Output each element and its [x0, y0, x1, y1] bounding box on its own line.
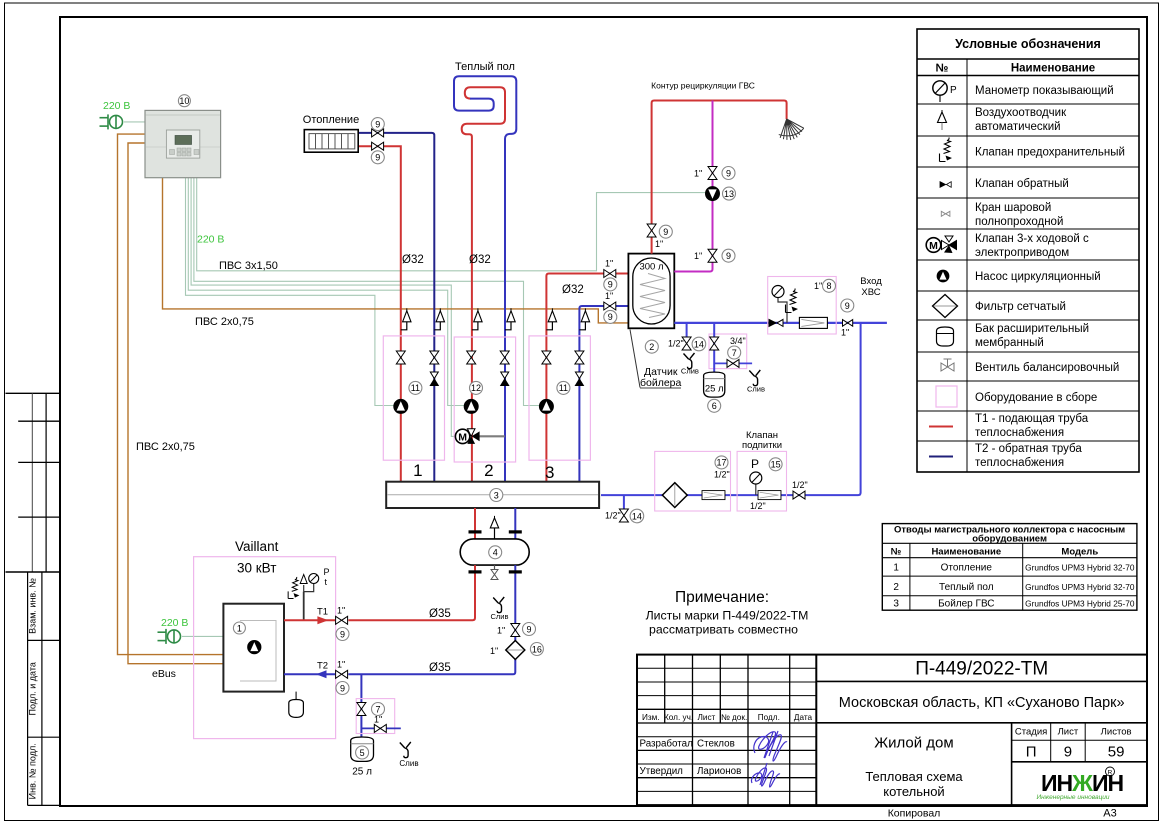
svg-text:7: 7	[375, 704, 380, 714]
check valve group3	[575, 372, 583, 386]
svg-text:11: 11	[411, 383, 420, 393]
svg-text:Наименование: Наименование	[1011, 63, 1095, 75]
svg-text:Московская область, КП «Сухано: Московская область, КП «Суханово Парк»	[839, 695, 1125, 711]
logo ИНЖИН	[1036, 767, 1123, 801]
svg-text:300 л: 300 л	[639, 262, 663, 273]
svg-text:Ø35: Ø35	[429, 662, 451, 674]
svg-text:1: 1	[893, 563, 899, 574]
svg-text:Листы марки П-449/2022-ТМ: Листы марки П-449/2022-ТМ	[646, 609, 809, 623]
label Вход ХВС	[860, 276, 882, 298]
label circle 9 entry	[841, 299, 854, 312]
svg-text:Взам. инв. №: Взам. инв. №	[28, 578, 38, 634]
svg-text:Р: Р	[751, 457, 759, 471]
svg-text:мембранный: мембранный	[975, 337, 1044, 349]
svg-text:ПВС 3х1,50: ПВС 3х1,50	[219, 260, 278, 272]
boiler safety group stem	[303, 592, 305, 621]
svg-text:5: 5	[360, 748, 365, 758]
label circle 5 tank	[356, 746, 369, 759]
svg-text:Изм.: Изм.	[642, 713, 660, 722]
svg-text:теплоснабжения: теплоснабжения	[975, 457, 1064, 469]
legend text: Т1 - подающая труба теплоснабжения	[975, 413, 1089, 439]
svg-text:2: 2	[893, 582, 899, 593]
label circle 9 radiator return	[371, 118, 384, 131]
svg-text:Копировал: Копировал	[888, 808, 941, 820]
boiler expansion tank stem	[295, 692, 297, 700]
check valve group1	[430, 372, 438, 386]
signature 1 (blue)	[754, 731, 787, 761]
air vent riser 6	[579, 308, 589, 330]
title block grid	[637, 655, 1147, 806]
label circle 9 T1	[336, 628, 349, 641]
pump group1	[394, 399, 408, 413]
label Датчик бойлера	[640, 366, 682, 389]
pump inside boiler	[248, 640, 261, 653]
manometer group 8	[772, 286, 787, 323]
svg-text:1": 1"	[337, 606, 345, 616]
strainer 17 diamond	[662, 483, 687, 508]
signature 2 (blue)	[751, 763, 780, 787]
svg-text:Тепловая схема: Тепловая схема	[865, 769, 963, 784]
svg-text:автоматический: автоматический	[975, 121, 1061, 133]
pump group 1 pink box	[383, 336, 444, 460]
svg-text:9: 9	[608, 280, 613, 290]
separator drain stem	[494, 565, 496, 570]
svg-text:17: 17	[716, 458, 726, 468]
valve drain horizontal	[374, 724, 386, 732]
valve radiator supply	[372, 142, 384, 150]
flow arrow T2	[316, 670, 327, 678]
svg-text:теплоснабжения: теплоснабжения	[975, 427, 1064, 439]
tank6 pink box	[709, 334, 747, 369]
svg-text:Контур рециркуляции ГВС: Контур рециркуляции ГВС	[651, 81, 755, 91]
svg-text:оборудованием: оборудованием	[972, 534, 1047, 545]
wire teal to pump 3	[194, 178, 540, 406]
legend assembled equipment symbol (pink box)	[936, 386, 957, 407]
svg-text:М: М	[929, 240, 938, 252]
air vent riser 5	[546, 308, 556, 330]
pipe collector to separator blue	[514, 508, 516, 539]
svg-text:ПВС 2х0,75: ПВС 2х0,75	[136, 441, 195, 453]
pump group3	[539, 399, 553, 413]
label circle 14 drain	[692, 337, 706, 351]
svg-text:Стадия: Стадия	[1015, 727, 1047, 738]
label circle 15	[769, 458, 782, 471]
svg-text:Ларионов: Ларионов	[697, 766, 741, 777]
svg-text:№: №	[936, 63, 949, 75]
valve recirc top	[708, 167, 717, 180]
power plug 220V bottom	[158, 629, 181, 644]
legend table grid	[917, 29, 1139, 472]
svg-text:Вентиль балансировочный: Вентиль балансировочный	[975, 362, 1119, 374]
pump table header	[894, 525, 1125, 545]
svg-text:1/2": 1/2"	[605, 511, 621, 521]
label circle 11 group3	[557, 381, 570, 394]
svg-text:Наименование: Наименование	[931, 547, 1001, 558]
legend 3-way valve symbol	[926, 236, 956, 253]
svg-text:9: 9	[726, 168, 731, 178]
svg-text:котельной: котельной	[883, 784, 944, 799]
strainer rectangle group 8	[799, 317, 827, 328]
legend T1 line sample	[929, 426, 953, 428]
pump table col headers	[891, 547, 1099, 558]
title Тепловая схема котельной	[865, 769, 963, 799]
safety valve on boiler	[288, 577, 299, 599]
svg-text:Утвердил: Утвердил	[640, 766, 684, 777]
svg-text:9: 9	[845, 301, 850, 311]
svg-text:Дата: Дата	[794, 713, 813, 722]
svg-text:15: 15	[771, 460, 781, 470]
wire teal to recirculation pump 13	[197, 178, 706, 271]
make-up box 15 pink	[737, 451, 786, 511]
svg-text:Модель: Модель	[1061, 547, 1098, 558]
svg-text:1": 1"	[814, 281, 822, 291]
valve 9 on T2 before separator	[511, 624, 520, 637]
svg-text:1": 1"	[497, 626, 505, 636]
svg-text:Слив: Слив	[399, 759, 418, 768]
svg-text:220 В: 220 В	[197, 234, 224, 246]
pipe coil return (blue)	[582, 305, 648, 307]
svg-text:Grundfos UPM3 Hybrid 32-70: Grundfos UPM3 Hybrid 32-70	[1025, 563, 1135, 573]
valve DHW outlet	[647, 224, 656, 237]
svg-text:М: М	[458, 431, 467, 443]
check valve group2	[501, 372, 509, 386]
label circle 9 T2	[336, 682, 349, 695]
svg-text:Слив: Слив	[681, 367, 699, 376]
svg-text:Клапан 3-х ходовой с: Клапан 3-х ходовой с	[975, 233, 1089, 245]
label circle 4 separator	[489, 546, 502, 559]
svg-text:подпитки: подпитки	[742, 440, 782, 451]
label circle 8	[823, 279, 836, 292]
air vent on boiler safety group	[300, 575, 307, 592]
legend text: Кран шаровой полнопроходной	[975, 202, 1063, 228]
svg-text:8: 8	[826, 281, 831, 291]
note Примечание	[646, 589, 809, 637]
legend T2 line sample	[929, 456, 953, 458]
svg-text:1": 1"	[655, 239, 663, 249]
label circle 17	[715, 456, 728, 469]
title small headers Стадия Лист Листов	[1015, 727, 1132, 738]
legend safety valve symbol	[940, 138, 953, 162]
svg-text:Т1 - подающая труба: Т1 - подающая труба	[975, 413, 1089, 425]
flange red bottom	[469, 570, 482, 573]
svg-text:Манометр показывающий: Манометр показывающий	[975, 85, 1114, 97]
svg-text:14: 14	[632, 511, 642, 521]
svg-text:полнопроходной: полнопроходной	[975, 216, 1063, 228]
T2 drain branch pipe	[360, 674, 362, 737]
label circle 9 DHW outlet	[659, 225, 672, 238]
wire teal plug to Vaillant	[182, 635, 223, 637]
legend pump symbol	[937, 270, 949, 282]
svg-text:Ø35: Ø35	[429, 608, 451, 620]
pipe make-up down	[601, 323, 861, 495]
svg-text:1/2": 1/2"	[668, 339, 684, 349]
wire brown boiler sensor	[163, 178, 629, 323]
svg-text:Т2 - обратная труба: Т2 - обратная труба	[975, 443, 1082, 455]
collector drain branch	[623, 495, 625, 509]
recirculation pump 13	[706, 187, 720, 201]
label circle 10	[178, 95, 190, 107]
label circle 13	[723, 187, 736, 200]
svg-text:12: 12	[471, 383, 481, 393]
svg-text:Теплый пол: Теплый пол	[455, 61, 515, 73]
pipe DHW hot outlet (red up)	[652, 101, 787, 254]
tank6 drain stub	[714, 362, 752, 364]
svg-text:9: 9	[608, 312, 613, 322]
svg-text:Р: Р	[950, 85, 957, 96]
label circle 3 collector	[490, 489, 503, 502]
boiler sensor leader line	[630, 330, 640, 388]
legend manometer symbol	[933, 81, 957, 102]
valve coil return	[604, 302, 616, 310]
svg-text:Фильтр сетчатый: Фильтр сетчатый	[975, 301, 1066, 313]
svg-text:59: 59	[1108, 744, 1125, 761]
flange red top	[469, 530, 482, 533]
svg-text:Бойлер ГВС: Бойлер ГВС	[938, 599, 994, 610]
svg-text:П: П	[1026, 744, 1037, 761]
shower symbol	[774, 114, 806, 144]
svg-text:Оборудование в сборе: Оборудование в сборе	[975, 392, 1097, 404]
svg-text:Воздухоотводчик: Воздухоотводчик	[975, 107, 1067, 119]
label circle 2 boiler300	[645, 340, 658, 353]
wire teal to pump 2	[188, 178, 464, 406]
svg-text:2: 2	[484, 461, 493, 480]
label circle 9 recirc bottom	[722, 249, 735, 262]
svg-text:Подл. и дата: Подл. и дата	[28, 662, 38, 715]
svg-text:электроприводом: электроприводом	[975, 247, 1069, 259]
pump table grid	[882, 524, 1137, 611]
svg-text:9: 9	[726, 251, 731, 261]
legend text: Клапан 3-х ходовой с электроприводом	[975, 233, 1089, 259]
check valve cold water	[769, 319, 783, 326]
legend text: Воздухоотводчик автоматический	[975, 107, 1067, 133]
svg-text:Инженерные инновации: Инженерные инновации	[1036, 794, 1109, 801]
svg-text:Стеклов: Стеклов	[697, 739, 735, 750]
drain symbol below separator	[493, 597, 504, 613]
pipe T1 from boiler	[284, 619, 335, 621]
svg-text:Кол. уч.: Кол. уч.	[664, 713, 693, 722]
label circle 16 strainer	[530, 643, 543, 656]
air vent riser 1	[401, 308, 411, 330]
svg-text:7: 7	[732, 348, 737, 358]
svg-text:13: 13	[724, 189, 734, 199]
title row headers Изм Кол.уч Лист №док Подл Дата	[642, 713, 812, 722]
air vent separator	[490, 516, 498, 539]
svg-text:P: P	[324, 567, 330, 577]
valve cold water entry	[843, 320, 853, 327]
3-way valve with actuator M group2	[455, 429, 504, 444]
svg-text:Вход: Вход	[860, 276, 882, 287]
svg-text:№ док.: № док.	[721, 713, 747, 722]
svg-text:П-449/2022-ТМ: П-449/2022-ТМ	[915, 659, 1048, 680]
svg-text:T2: T2	[317, 661, 328, 672]
svg-text:Vaillant: Vaillant	[235, 539, 279, 554]
label circle 9 coil return	[604, 310, 617, 323]
label circle 14 collector drain	[630, 509, 644, 523]
wire brown eBus A	[118, 134, 224, 655]
svg-text:14: 14	[694, 339, 704, 349]
svg-text:9: 9	[1064, 744, 1072, 761]
valve group3 supply	[542, 351, 551, 364]
pipe T2 to boiler	[284, 673, 335, 675]
label circle 9 radiator supply	[371, 151, 384, 164]
valve drain 14	[682, 337, 691, 350]
legend strainer symbol	[933, 295, 958, 318]
pump group2	[464, 399, 478, 413]
pipe separator down blue	[348, 565, 515, 674]
air vent riser 2	[434, 308, 444, 330]
title values П 9 59	[1026, 744, 1125, 761]
drain symbol near tank5	[400, 742, 411, 758]
svg-text:ПВС 2х0,75: ПВС 2х0,75	[195, 316, 254, 328]
valve group2 supply	[467, 351, 476, 364]
pipe recirculation (magenta)	[674, 101, 712, 272]
svg-text:3/4": 3/4"	[730, 336, 746, 346]
drain symbol right of tank6	[749, 370, 760, 386]
pipe T1 radiator supply (red riser group 1)	[358, 146, 401, 481]
pipe cold water main (blue)	[674, 322, 887, 324]
air vent riser 3	[472, 308, 482, 330]
pump table row 1	[893, 563, 1135, 574]
tank branch drain stub	[361, 727, 400, 729]
manometer on boiler safety group	[304, 574, 319, 592]
svg-text:Примечание:: Примечание:	[675, 589, 769, 606]
pipe tank6 branch	[713, 323, 715, 372]
flange blue bottom	[509, 570, 522, 573]
pipe group 3 red riser	[546, 274, 603, 482]
svg-text:4: 4	[493, 548, 498, 558]
T2 drain pink box	[356, 699, 395, 734]
svg-text:Лист: Лист	[1058, 727, 1079, 738]
svg-text:Кран шаровой: Кран шаровой	[975, 202, 1051, 214]
pipe collector to separator red	[474, 508, 476, 539]
svg-text:9: 9	[340, 629, 345, 639]
svg-text:9: 9	[663, 227, 668, 237]
valve T1	[336, 616, 348, 624]
svg-text:бойлера: бойлера	[640, 377, 682, 389]
flange blue top	[509, 530, 522, 533]
label Клапан подпитки	[742, 430, 782, 451]
power plug 220V top	[100, 114, 123, 129]
svg-text:Подл.: Подл.	[758, 713, 780, 722]
svg-text:9: 9	[526, 624, 531, 634]
controller unit 10	[145, 110, 221, 177]
svg-text:1: 1	[413, 461, 422, 480]
valve group1 return	[430, 351, 439, 364]
svg-text:10: 10	[179, 96, 189, 106]
wire teal to 3-way valve M	[191, 178, 455, 437]
legend ball valve symbol	[941, 211, 950, 216]
svg-text:eBus: eBus	[152, 668, 176, 680]
svg-text:ХВС: ХВС	[861, 287, 880, 298]
svg-text:рассматривать совместно: рассматривать совместно	[649, 623, 798, 637]
svg-text:1": 1"	[694, 251, 702, 261]
boiler small expansion tank	[289, 700, 304, 718]
svg-text:11: 11	[559, 383, 568, 393]
svg-text:3: 3	[545, 463, 554, 482]
reducer after filter17	[702, 491, 725, 500]
valve group1 supply	[396, 351, 405, 364]
valve tank6 drain	[727, 359, 739, 367]
svg-text:1: 1	[237, 623, 242, 633]
collector 3	[386, 482, 599, 508]
label circle 9 recirc top	[722, 167, 735, 180]
label P t	[324, 567, 330, 587]
svg-text:220 В: 220 В	[161, 617, 188, 629]
label circle 7 tank6	[728, 346, 741, 359]
legend expansion tank symbol	[937, 327, 954, 346]
svg-text:1": 1"	[337, 660, 345, 670]
label circle 9 coil supply	[604, 278, 617, 291]
valve collector drain	[619, 509, 628, 522]
svg-text:3: 3	[494, 490, 499, 500]
svg-text:220 В: 220 В	[103, 100, 130, 112]
floor heating coil blue part	[454, 76, 516, 482]
wall boiler 1 body	[223, 604, 284, 692]
svg-text:9: 9	[375, 119, 380, 129]
pump group 2 pink box	[454, 337, 515, 462]
flow arrow T1	[317, 616, 328, 624]
svg-text:1/2": 1/2"	[714, 470, 730, 480]
svg-text:Grundfos UPM3 Hybrid 25-70: Grundfos UPM3 Hybrid 25-70	[1025, 599, 1135, 609]
svg-text:2: 2	[649, 342, 654, 352]
svg-text:1": 1"	[841, 328, 849, 338]
pump group 3 pink box	[529, 336, 590, 460]
svg-text:А3: А3	[1103, 808, 1116, 820]
strainer 16 on T2	[506, 641, 525, 660]
svg-text:Жилой дом: Жилой дом	[874, 735, 953, 752]
hydraulic separator 4	[460, 539, 529, 565]
label circle 7 tank branch	[372, 703, 385, 716]
svg-text:1": 1"	[374, 715, 382, 725]
filter group 8 pink box	[768, 277, 837, 335]
legend balancing valve symbol	[941, 359, 954, 371]
label circle 9 T2 valve	[523, 623, 536, 636]
valve group3 return	[575, 351, 584, 364]
pipe hot supply to coil (red)	[550, 273, 648, 275]
valve recirc bottom	[708, 249, 717, 262]
legend check valve symbol	[940, 182, 951, 188]
valve group2 return	[500, 351, 509, 364]
svg-text:Насос циркуляционный: Насос циркуляционный	[975, 271, 1101, 283]
pipe separator down red	[348, 565, 475, 620]
svg-text:1": 1"	[490, 646, 498, 656]
valve coil supply	[604, 270, 616, 278]
svg-text:Листов: Листов	[1101, 727, 1132, 738]
air vent riser 4	[505, 308, 515, 330]
pump table row 2	[893, 582, 1135, 593]
pipe T2 radiator return (navy riser group 1)	[358, 133, 434, 482]
svg-text:Отопление: Отопление	[303, 114, 359, 126]
valve on tank branch	[357, 703, 366, 716]
valve T2	[336, 670, 348, 678]
svg-text:Клапан предохранительный: Клапан предохранительный	[975, 147, 1125, 159]
svg-text:9: 9	[375, 153, 380, 163]
safety valve group 8	[786, 289, 799, 313]
svg-text:1": 1"	[694, 169, 702, 179]
svg-text:1": 1"	[605, 291, 613, 301]
svg-text:T1: T1	[317, 607, 328, 618]
Vaillant pink box	[194, 557, 336, 739]
radiator Отопление	[304, 130, 358, 153]
svg-text:Теплый пол: Теплый пол	[939, 582, 994, 593]
pipe boiler drain branch 14	[686, 323, 688, 337]
svg-text:Инв. № подл.: Инв. № подл.	[28, 743, 38, 799]
pump table row 3	[893, 599, 1135, 610]
svg-text:Отопление: Отопление	[941, 563, 993, 574]
floor heating coil red part	[462, 87, 505, 481]
svg-text:1": 1"	[605, 259, 613, 269]
svg-text:Условные обозначения: Условные обозначения	[955, 37, 1101, 51]
